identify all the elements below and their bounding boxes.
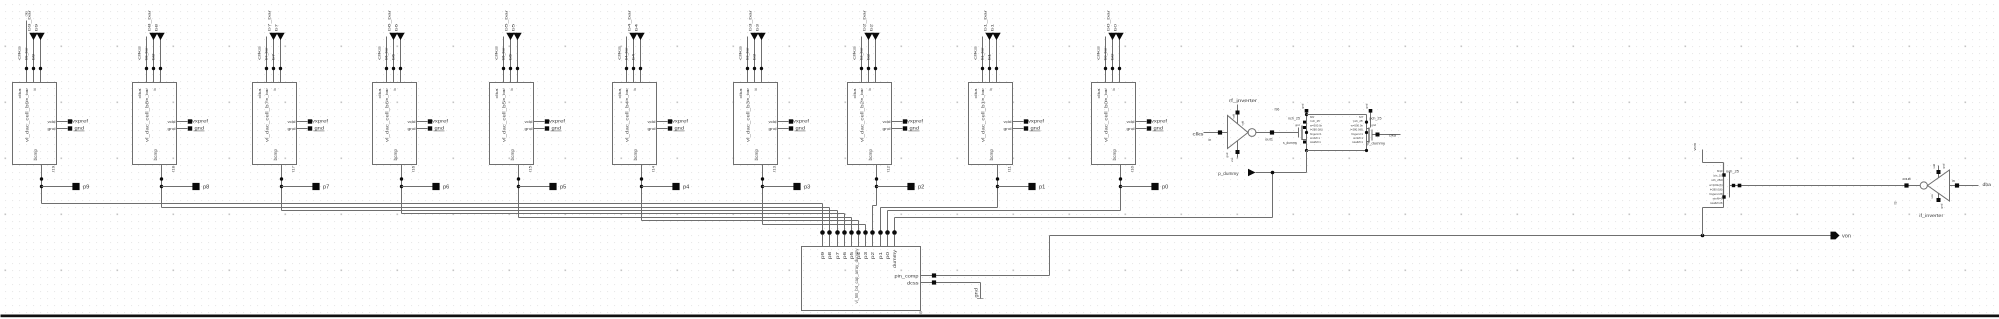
pin b3 triangle (757, 33, 765, 40)
pin p1 square (1028, 183, 1035, 190)
wire lane drop net p9 (822, 204, 824, 231)
svg-text:b4_bar: b4_bar (625, 46, 629, 60)
transistor M13 nch_25 channel (1723, 163, 1725, 200)
svg-text:if_inverter: if_inverter (1919, 213, 1944, 218)
svg-text:b7: b7 (274, 23, 279, 31)
svg-text:vdd: vdd (1240, 120, 1244, 125)
svg-text:b1_bar: b1_bar (981, 46, 985, 60)
gnd pin wire block 4 (417, 128, 428, 130)
pin b0 triangle (1115, 33, 1123, 40)
wire lane drop net p1 (880, 208, 882, 231)
gnd pin wire block 10 (1136, 128, 1147, 130)
svg-text:b: b (754, 88, 758, 90)
output pin von (1831, 232, 1840, 240)
svg-text:I3: I3 (1894, 202, 1898, 205)
svg-text:vxpref: vxpref (72, 119, 89, 124)
svg-text:gnd: gnd (769, 127, 777, 131)
svg-text:gnd: gnd (1942, 163, 1946, 168)
svg-text:vss: vss (1230, 157, 1234, 162)
connector dot pin 3 of cap array (842, 230, 847, 235)
wire net out1 (1256, 132, 1299, 134)
svg-text:p8: p8 (827, 251, 832, 259)
svg-text:s_dummy: s_dummy (1283, 141, 1297, 145)
svg-text:clka: clka (739, 87, 743, 98)
pin p7 square (312, 183, 319, 190)
junction dots bottom block 8 (875, 177, 878, 180)
svg-text:I96: I96 (1275, 108, 1280, 112)
svg-text:b0_bar: b0_bar (1106, 9, 1111, 31)
junction dots block 6 (625, 67, 628, 70)
svg-text:b9_bar: b9_bar (27, 9, 32, 31)
wire lane net p8 (162, 207, 830, 209)
svg-text:b8_bar: b8_bar (147, 9, 152, 31)
svg-text:b6: b6 (392, 54, 396, 60)
wire to pin p9 (42, 186, 74, 188)
junction dots block 2 (145, 67, 148, 70)
svg-text:vdd: vdd (883, 120, 891, 124)
svg-text:vxpref: vxpref (793, 119, 810, 124)
svg-text:vdd: vdd (168, 120, 176, 124)
cell block X0: vl_dac_cell_b0 instance I10 (1092, 83, 1136, 165)
svg-text:b5_bar: b5_bar (502, 46, 506, 60)
cell block X4: vl_dac_cell_b4 instance I14 (613, 83, 657, 165)
svg-text:simM=1: simM=1 (1713, 197, 1723, 201)
svg-text:clks: clks (853, 45, 857, 60)
wire net dummy lane (1272, 173, 1274, 218)
svg-text:p2: p2 (870, 251, 875, 259)
svg-text:clka: clka (618, 87, 622, 98)
svg-text:I13: I13 (773, 166, 777, 172)
wire p_dummy (1256, 172, 1307, 174)
cell block X8: vl_dac_cell_b8 instance I18 (133, 83, 177, 165)
connector dot pin 4 of cap array (849, 230, 854, 235)
vdd pin wire block 10 (1136, 121, 1147, 123)
wire in_bar block 9 (989, 40, 991, 83)
svg-text:vl_dac_cell_b7: vl_dac_cell_b7 (264, 101, 270, 142)
wire block 8 bottom vertical (876, 165, 878, 206)
wire vcm down (1702, 150, 1704, 163)
svg-text:vss: vss (1930, 194, 1934, 199)
junction dots block 3 (265, 67, 268, 70)
svg-text:b7_bar: b7_bar (267, 9, 272, 31)
wire b block 3 (280, 40, 282, 83)
transistor M9 s_dummy nch_25 (1298, 128, 1300, 138)
svg-text:clks: clks (378, 45, 382, 60)
svg-text:gnd: gnd (1004, 127, 1012, 131)
wire lane drop net p5 (851, 218, 853, 231)
transistor M7 p_dummy pch_25 (1371, 130, 1373, 141)
svg-text:gnd: gnd (1365, 103, 1369, 108)
svg-text:b: b (1112, 88, 1116, 90)
pin b7 triangle (276, 33, 284, 40)
wire lane net p5 (519, 217, 852, 219)
pin b4 triangle (636, 33, 644, 40)
svg-text:gnd: gnd (288, 127, 296, 131)
svg-text:b: b (989, 88, 993, 90)
svg-text:p3: p3 (804, 184, 811, 190)
junction dots bottom block 10 (1119, 177, 1122, 180)
svg-text:bcmp: bcmp (1112, 148, 1117, 160)
svg-text:b0: b0 (1113, 23, 1118, 31)
svg-text:M13: M13 (1717, 169, 1723, 173)
svg-text:p1: p1 (1039, 184, 1046, 190)
vdd pin wire block 7 (778, 121, 789, 123)
svg-text:bcmp: bcmp (33, 148, 38, 160)
vdd pin wire block 9 (1013, 121, 1024, 123)
svg-text:b9_bar: b9_bar (25, 46, 29, 60)
wire lane drop net p8 (829, 208, 831, 231)
connector dot pin 5 of cap array (856, 230, 861, 235)
svg-text:b2: b2 (869, 23, 874, 31)
svg-text:b6: b6 (394, 23, 399, 31)
pin b6_bar triangle (389, 33, 397, 40)
wire clka net clks block 7 (747, 37, 749, 83)
pin b1_bar triangle (985, 33, 993, 40)
wire lane net p2 (873, 205, 877, 207)
svg-text:b9: b9 (32, 54, 36, 60)
svg-text:b: b (393, 88, 397, 90)
junction dots block 4 (385, 67, 388, 70)
svg-text:nch_25dl: nch_25dl (1711, 178, 1723, 182)
svg-text:vcm: vcm (1692, 142, 1697, 150)
wire lane net p0 (888, 210, 1121, 212)
svg-text:clka: clka (1097, 87, 1101, 98)
wire to pin p0 (1121, 186, 1153, 188)
wire lane net p9 (42, 203, 823, 205)
pin b4_bar triangle (629, 33, 637, 40)
connector dot pin 2 of cap array (835, 230, 840, 235)
svg-text:b6_bar: b6_bar (387, 9, 392, 31)
wire block 1 bottom vertical (41, 165, 43, 204)
junction dots bottom block 1 (40, 177, 43, 180)
vdd pin wire block 2 (177, 121, 188, 123)
svg-text:I16: I16 (412, 166, 416, 172)
svg-text:bcmp: bcmp (510, 148, 515, 160)
svg-text:vxpref: vxpref (312, 119, 329, 124)
svg-text:p7: p7 (835, 251, 840, 259)
junction dots bottom block 5 (517, 177, 520, 180)
svg-text:gnd: gnd (675, 126, 685, 131)
connector dot pin 8 of cap array (878, 230, 883, 235)
svg-text:clks: clks (618, 45, 622, 60)
svg-text:bcmp: bcmp (153, 148, 158, 160)
svg-text:b2: b2 (867, 54, 871, 60)
wire clka net clks block 6 (626, 37, 628, 83)
svg-text:vxpref: vxpref (1151, 119, 1168, 124)
svg-text:p3: p3 (863, 251, 868, 259)
pin b1 triangle (992, 33, 1000, 40)
svg-text:gnd: gnd (1295, 123, 1300, 127)
pin p2 square (907, 183, 914, 190)
svg-text:p8: p8 (203, 184, 210, 190)
svg-text:b0_bar: b0_bar (1104, 46, 1108, 60)
svg-text:gnd: gnd (435, 126, 445, 131)
wire in to dba (1950, 185, 1979, 187)
pin p6 square (432, 183, 439, 190)
svg-text:clka: clka (378, 87, 382, 98)
wire to pin p1 (998, 186, 1030, 188)
svg-text:b2_bar: b2_bar (860, 46, 864, 60)
svg-text:I10: I10 (1131, 166, 1135, 172)
svg-text:vxpref: vxpref (192, 119, 209, 124)
svg-text:b8_bar: b8_bar (145, 46, 149, 60)
svg-text:gnd: gnd (1154, 126, 1164, 131)
gnd stub of rf_inverter (1237, 141, 1239, 158)
wire to pin p5 (519, 186, 551, 188)
svg-text:rf_inverter: rf_inverter (1229, 98, 1258, 103)
svg-text:b5: b5 (511, 23, 516, 31)
wire lane net p1 (881, 207, 998, 209)
svg-text:pin_comp: pin_comp (895, 273, 920, 278)
svg-text:gnd: gnd (315, 126, 325, 131)
svg-text:p0: p0 (885, 251, 890, 259)
svg-text:p6: p6 (842, 251, 847, 259)
wire lane net p3 (763, 224, 866, 226)
svg-text:b4: b4 (632, 54, 636, 60)
pin b5 triangle (513, 33, 521, 40)
svg-text:vl_dac_cell_b0: vl_dac_cell_b0 (1103, 101, 1109, 142)
junction dots block 9 (981, 67, 984, 70)
vdd pin wire block 1 (57, 121, 68, 123)
wire lane net p6 (402, 213, 845, 215)
wire lane drop net p4 (858, 221, 860, 231)
svg-text:gnd: gnd (910, 126, 920, 131)
svg-text:b2_bar: b2_bar (862, 9, 867, 31)
svg-text:vl_dac_cell_b8: vl_dac_cell_b8 (144, 101, 150, 142)
gnd pin wire block 5 (534, 128, 545, 130)
wire b block 1 (40, 40, 42, 83)
junction dots bottom block 9 (996, 177, 999, 180)
svg-text:l=280.0(6): l=280.0(6) (1710, 187, 1723, 191)
svg-text:gnd: gnd (1031, 126, 1041, 131)
svg-text:b9: b9 (34, 23, 39, 31)
cell block X2: vl_dac_cell_b2 instance I12 (848, 83, 892, 165)
junction dots block 8 (860, 67, 863, 70)
svg-text:vdd: vdd (525, 120, 533, 124)
wire lane drop net p2 (872, 206, 874, 231)
svg-text:b7_bar: b7_bar (265, 46, 269, 60)
svg-text:totalM=28: totalM=28 (1710, 201, 1723, 205)
svg-text:p2: p2 (918, 184, 925, 190)
wire in_bar block 4 (393, 40, 395, 83)
svg-text:clks: clks (1097, 45, 1101, 60)
junction dots bottom block 4 (400, 177, 403, 180)
svg-text:vxpref: vxpref (432, 119, 449, 124)
svg-text:dba: dba (1983, 182, 1992, 187)
svg-text:b3_bar: b3_bar (748, 9, 753, 31)
gnd pin wire block 2 (177, 128, 188, 130)
svg-text:p4: p4 (683, 184, 690, 190)
wire dummy cluster down (1306, 151, 1308, 173)
svg-text:gnd: gnd (195, 126, 205, 131)
gnd pin wire block 3 (297, 128, 308, 130)
inverter U_if: if_inverter mirrored (1920, 182, 1927, 189)
pin p4 square (672, 183, 679, 190)
svg-text:bcmp: bcmp (633, 148, 638, 160)
pin b0_bar triangle (1108, 33, 1116, 40)
svg-text:p5: p5 (560, 184, 567, 190)
cell block X5: vl_dac_cell_b5 instance I15 (490, 83, 534, 165)
cell block X3: vl_dac_cell_b3 instance I13 (734, 83, 778, 165)
pin b3_bar triangle (750, 33, 758, 40)
svg-text:gnd: gnd (168, 127, 176, 131)
gnd pin wire block 1 (57, 128, 68, 130)
wire clka net clks block 9 (982, 37, 984, 83)
wire to pin p3 (763, 186, 795, 188)
svg-text:bcmp: bcmp (273, 148, 278, 160)
svg-text:gnd: gnd (48, 127, 56, 131)
svg-text:gnd: gnd (973, 287, 978, 297)
wire clka net clks block 1 (26, 21, 28, 83)
svg-text:gnd: gnd (525, 127, 533, 131)
svg-text:out: out (1902, 176, 1912, 181)
pin p0 square (1151, 183, 1158, 190)
svg-text:dummy: dummy (892, 249, 897, 268)
svg-text:vl_dac_cell_b6: vl_dac_cell_b6 (384, 101, 390, 142)
svg-text:b8: b8 (152, 54, 156, 60)
sheet border bottom bar (1, 315, 1999, 318)
wire b block 8 (875, 40, 877, 83)
connector dot pin 6 of cap array (863, 230, 868, 235)
svg-text:vxpref: vxpref (907, 119, 924, 124)
wire clka net clks block 5 (503, 37, 505, 83)
svg-text:b7: b7 (272, 54, 276, 60)
svg-text:p6: p6 (443, 184, 450, 190)
M9 gnd tap (1305, 109, 1309, 113)
svg-text:clks: clks (495, 45, 499, 60)
svg-text:vdd: vdd (48, 120, 56, 124)
svg-text:in_bar: in_bar (860, 87, 864, 101)
svg-text:clka: clka (853, 87, 857, 98)
vdd pin wire block 8 (892, 121, 903, 123)
svg-text:b: b (153, 88, 157, 90)
svg-text:gnd: gnd (1225, 152, 1229, 157)
svg-text:in_bar: in_bar (625, 87, 629, 101)
svg-text:b4: b4 (634, 23, 639, 31)
gnd pin wire block 6 (657, 128, 668, 130)
junction dots bottom block 3 (280, 177, 283, 180)
wire clka net clks block 10 (1105, 37, 1107, 83)
svg-text:vdd: vdd (288, 120, 296, 124)
svg-text:vl_5B_b4_cap_array_dummy: vl_5B_b4_cap_array_dummy (854, 248, 859, 304)
svg-text:vl_dac_cell_b5: vl_dac_cell_b5 (501, 101, 507, 142)
svg-text:vl_dac_cell_b4: vl_dac_cell_b4 (624, 101, 630, 142)
svg-text:dcss: dcss (907, 281, 920, 286)
vdd pin wire block 6 (657, 121, 668, 123)
svg-text:in: in (1952, 179, 1955, 183)
wire top between dummies (1307, 114, 1367, 116)
wire block 5 bottom vertical (518, 165, 520, 218)
svg-text:von: von (1842, 234, 1851, 240)
connector dot pin 7 of cap array (870, 230, 875, 235)
pin b5_bar triangle (506, 33, 514, 40)
svg-text:p0: p0 (1162, 184, 1169, 190)
wire lane net p4 (642, 220, 859, 222)
svg-text:clks: clks (739, 45, 743, 60)
svg-text:vl_dac_cell_b9: vl_dac_cell_b9 (24, 101, 30, 142)
svg-text:clka: clka (1389, 134, 1396, 138)
pin b9_bar triangle (29, 33, 37, 40)
svg-text:gnd: gnd (1301, 103, 1305, 108)
wire to pin p2 (877, 186, 909, 188)
wire lane drop net p0 (887, 211, 889, 231)
junction dots block 10 (1104, 67, 1107, 70)
svg-text:clka: clka (138, 87, 142, 98)
wire in_bar block 10 (1112, 40, 1114, 83)
svg-text:b1: b1 (988, 54, 992, 60)
svg-text:b3: b3 (755, 23, 760, 31)
wire in_bar block 2 (153, 40, 155, 83)
svg-text:b0: b0 (1111, 54, 1115, 60)
svg-text:vl_dac_cell_b1: vl_dac_cell_b1 (980, 101, 986, 142)
svg-text:vdd: vdd (408, 120, 416, 124)
svg-text:vxpref: vxpref (1028, 119, 1045, 124)
pin b8 triangle (156, 33, 164, 40)
vdd pin wire block 3 (297, 121, 308, 123)
wire block 4 bottom vertical (401, 165, 403, 214)
wire block 10 bottom vertical (1120, 165, 1122, 211)
M13 gate bar (1729, 172, 1731, 198)
pin b7_bar triangle (269, 33, 277, 40)
svg-text:vdd: vdd (1932, 163, 1936, 168)
M7 gnd tap (1370, 111, 1372, 128)
svg-text:clka: clka (18, 87, 22, 98)
svg-text:b: b (33, 88, 37, 90)
svg-text:gnd: gnd (648, 127, 656, 131)
pin b2 triangle (871, 33, 879, 40)
wire in_bar block 7 (754, 40, 756, 83)
M13 terminal squares (1722, 173, 1725, 176)
M9 drain-source tie wire (1306, 111, 1308, 151)
svg-text:I17: I17 (292, 166, 296, 172)
svg-text:clks: clks (974, 45, 978, 60)
svg-text:in_bar: in_bar (746, 87, 750, 101)
svg-text:b: b (273, 88, 277, 90)
svg-text:bcmp: bcmp (868, 148, 873, 160)
M13 source down to von (1723, 200, 1725, 208)
cell block X7: vl_dac_cell_b7 instance I17 (253, 83, 297, 165)
svg-text:b4_bar: b4_bar (627, 9, 632, 31)
svg-text:b: b (633, 88, 637, 90)
wire block 7 bottom vertical (762, 165, 764, 225)
wire lane drop net p6 (844, 214, 846, 231)
svg-text:I5: I5 (919, 311, 923, 314)
svg-text:p7: p7 (323, 184, 330, 190)
svg-text:I19: I19 (52, 166, 56, 172)
junction dots bottom block 2 (160, 177, 163, 180)
svg-text:bcmp: bcmp (989, 148, 994, 160)
svg-text:b3_bar: b3_bar (746, 46, 750, 60)
svg-text:clka: clka (258, 87, 262, 98)
wire to pin p4 (642, 186, 674, 188)
svg-text:vdd: vdd (1004, 120, 1012, 124)
wire clka net clks block 8 (861, 37, 863, 83)
junction dots bottom block 6 (640, 177, 643, 180)
svg-text:gnd: gnd (552, 126, 562, 131)
svg-text:I11: I11 (1008, 166, 1012, 172)
svg-text:w=100u(6): w=100u(6) (1709, 183, 1722, 187)
svg-text:gnd: gnd (1371, 123, 1376, 127)
vdd pin wire block 4 (417, 121, 428, 123)
junction dots block 7 (746, 67, 749, 70)
svg-text:clka: clka (495, 87, 499, 98)
svg-text:vxpref: vxpref (549, 119, 566, 124)
svg-text:gnd: gnd (1939, 203, 1943, 208)
svg-text:vdd: vdd (648, 120, 656, 124)
connector dot pin 0 of cap array (820, 230, 825, 235)
wire lane drop net p3 (865, 225, 867, 231)
svg-text:vxpref: vxpref (672, 119, 689, 124)
